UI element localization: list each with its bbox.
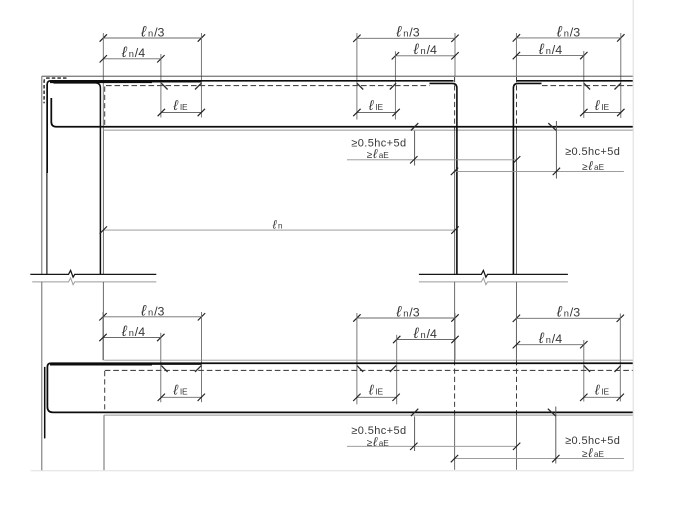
fig1 mid-column left anchor bar hooking down (430, 83, 457, 274)
fig2 bar cutoff mark at ln/4 middle (390, 366, 396, 372)
left column inner edge between figures (102, 282, 104, 360)
fig2 bar cutoff mark at ln/3 left (195, 366, 201, 372)
fig1 left column inner edge (102, 130, 104, 274)
fig1 extension from bottom-bar end right (555, 121, 557, 179)
fig2 dimension ln/4 left span-end (103, 337, 161, 339)
fig1 top bar support overlay first row (50, 81, 152, 83)
fig2 bar cutoff mark at ln/3 middle (357, 366, 363, 372)
fig2 dimension llE left (161, 396, 201, 398)
fig2 bottom bar end mark left-span bar (548, 409, 556, 416)
fig2 left column inner hidden edge in beam (dashed) (104, 371, 106, 412)
fig1 left column outer edge (41, 76, 43, 274)
drawing bottom rule (31, 470, 634, 472)
fig1 middle column left hidden edge in beam (dashed) (454, 77, 456, 130)
svg-text:≥0.5hc+5d: ≥0.5hc+5d (351, 137, 406, 149)
fig1 middle column left edge below beam (454, 130, 456, 274)
fig1 hanger bar dashed line span1 (106, 85, 430, 87)
fig2 top bar + left end hooks + bottom bar (C shape) (47, 363, 633, 412)
fig1 left column inner bar bent into beam (54, 83, 101, 274)
fig1 left column inner hidden edge in beam (dashed) (104, 87, 106, 128)
svg-text:≥0.5hc+5d: ≥0.5hc+5d (565, 146, 620, 158)
fig2 middle column right edge below beam (516, 415, 518, 469)
fig1 left column break line upper (30, 270, 156, 277)
fig2 hanger bar dashed line (105, 369, 633, 371)
fig2 bottom bar end mark right-span bar (411, 409, 418, 416)
fig2 dimension 0.5hc+5d left (line) (347, 445, 517, 447)
fig1 bar cutoff mark at ln/4 right (584, 83, 590, 89)
left column outer edge between figures (41, 282, 43, 471)
fig1 bottom bar end mark right-span bar (411, 123, 418, 130)
fig1 bar cutoff mark at ln/4 left (161, 83, 167, 89)
fig1 dimension llE right (584, 112, 621, 114)
fig1 mid-column right anchor bar hooking down (513, 83, 541, 274)
fig1 dimension ln/3 left span-end (103, 37, 201, 39)
fig2 dimension ln/4 right span (516, 344, 583, 346)
fig1 bar cutoff mark at ln/3 right (615, 83, 621, 89)
fig1 left column outer bar (46, 84, 48, 274)
fig2 middle column right hidden edge in beam (dashed) (516, 360, 518, 415)
fig2 bar cutoff mark at ln/3 right (615, 366, 621, 372)
fig1 top bar support overlay second row (152, 81, 201, 83)
fig1 middle column break line lower (419, 278, 568, 285)
fig2 dimension ln/4 mid-support left side (397, 339, 455, 341)
fig2 beam bottom outline (104, 414, 633, 416)
drawing right border (632, 0, 634, 471)
fig2 dimension ln/3 left span-end (103, 316, 202, 318)
fig1 top bar span1 with end hook at left column (47, 81, 453, 173)
fig2 bar cutoff mark at ln/4 right (584, 366, 590, 372)
svg-text:≥0.5hc+5d: ≥0.5hc+5d (351, 425, 406, 437)
fig1 extension from bottom-bar end left (414, 131, 416, 166)
fig1 hanger bar dashed line span2 (542, 85, 633, 87)
fig1 beam top outline (42, 75, 633, 77)
fig2 dimension ln/3 right span (516, 317, 620, 319)
fig1 dimension 0.5hc+5d right (line) (454, 170, 624, 172)
fig2 dimension llE right (584, 396, 621, 398)
fig1 left column break line lower (32, 278, 156, 285)
fig2 dimension 0.5hc+5d right (line) (454, 458, 624, 460)
fig1 bottom bar with up-hook at left end (51, 98, 633, 127)
fig2 top bar support overlay second row (152, 363, 201, 365)
fig1 dimension ln/4 left span-end (103, 58, 161, 60)
middle column right edge between figures (516, 282, 518, 360)
fig1 top bar span2 (517, 80, 633, 82)
fig1 dimension llE left (161, 112, 201, 114)
fig2 bar cutoff mark at ln/4 left (161, 366, 167, 372)
fig1 beam bottom outline (103, 129, 633, 131)
svg-text:≥0.5hc+5d: ≥0.5hc+5d (565, 435, 620, 447)
fig2 middle column left edge below beam (454, 415, 456, 469)
fig2 dimension ln/3 mid-support left side (357, 317, 455, 319)
fig1 dimension ln/4 mid-support left side (395, 55, 455, 57)
fig1 bottom bar end mark left-span bar (548, 123, 556, 130)
fig2 dimension llE middle (357, 396, 396, 398)
fig2 extension from bottom-bar end right (555, 407, 557, 464)
fig1 middle column right hidden edge in beam (dashed) (516, 77, 518, 130)
fig1 dimension ln clear span (103, 229, 455, 231)
fig1 bar cutoff mark at ln/3 middle (357, 83, 363, 89)
fig1 middle column break line upper (419, 270, 568, 277)
fig2 left end long bar tail (44, 367, 46, 439)
fig1 dimension llE middle (357, 112, 396, 114)
fig2 top bar support overlay first row (50, 364, 152, 366)
fig2 middle column left hidden edge in beam (dashed) (454, 360, 456, 415)
fig2 left column inner edge below beam (103, 415, 105, 470)
fig2 beam top outline (104, 359, 633, 361)
fig1 dimension ln/4 right span (516, 55, 583, 57)
fig1 bar cutoff mark at ln/4 middle (390, 83, 396, 89)
fig1 dimension ln/3 mid-support left side (357, 37, 455, 39)
fig1 corner dashed bar at left joint (44, 78, 66, 103)
middle column left edge between figures (454, 282, 456, 360)
fig2 extension from bottom-bar end left (414, 416, 416, 451)
fig1 dimension ln/3 right span (516, 37, 620, 39)
fig1 bar cutoff mark at ln/3 left (195, 83, 201, 89)
fig1 middle column right edge below beam (516, 130, 518, 274)
fig1 dimension 0.5hc+5d left (line) (347, 159, 517, 161)
